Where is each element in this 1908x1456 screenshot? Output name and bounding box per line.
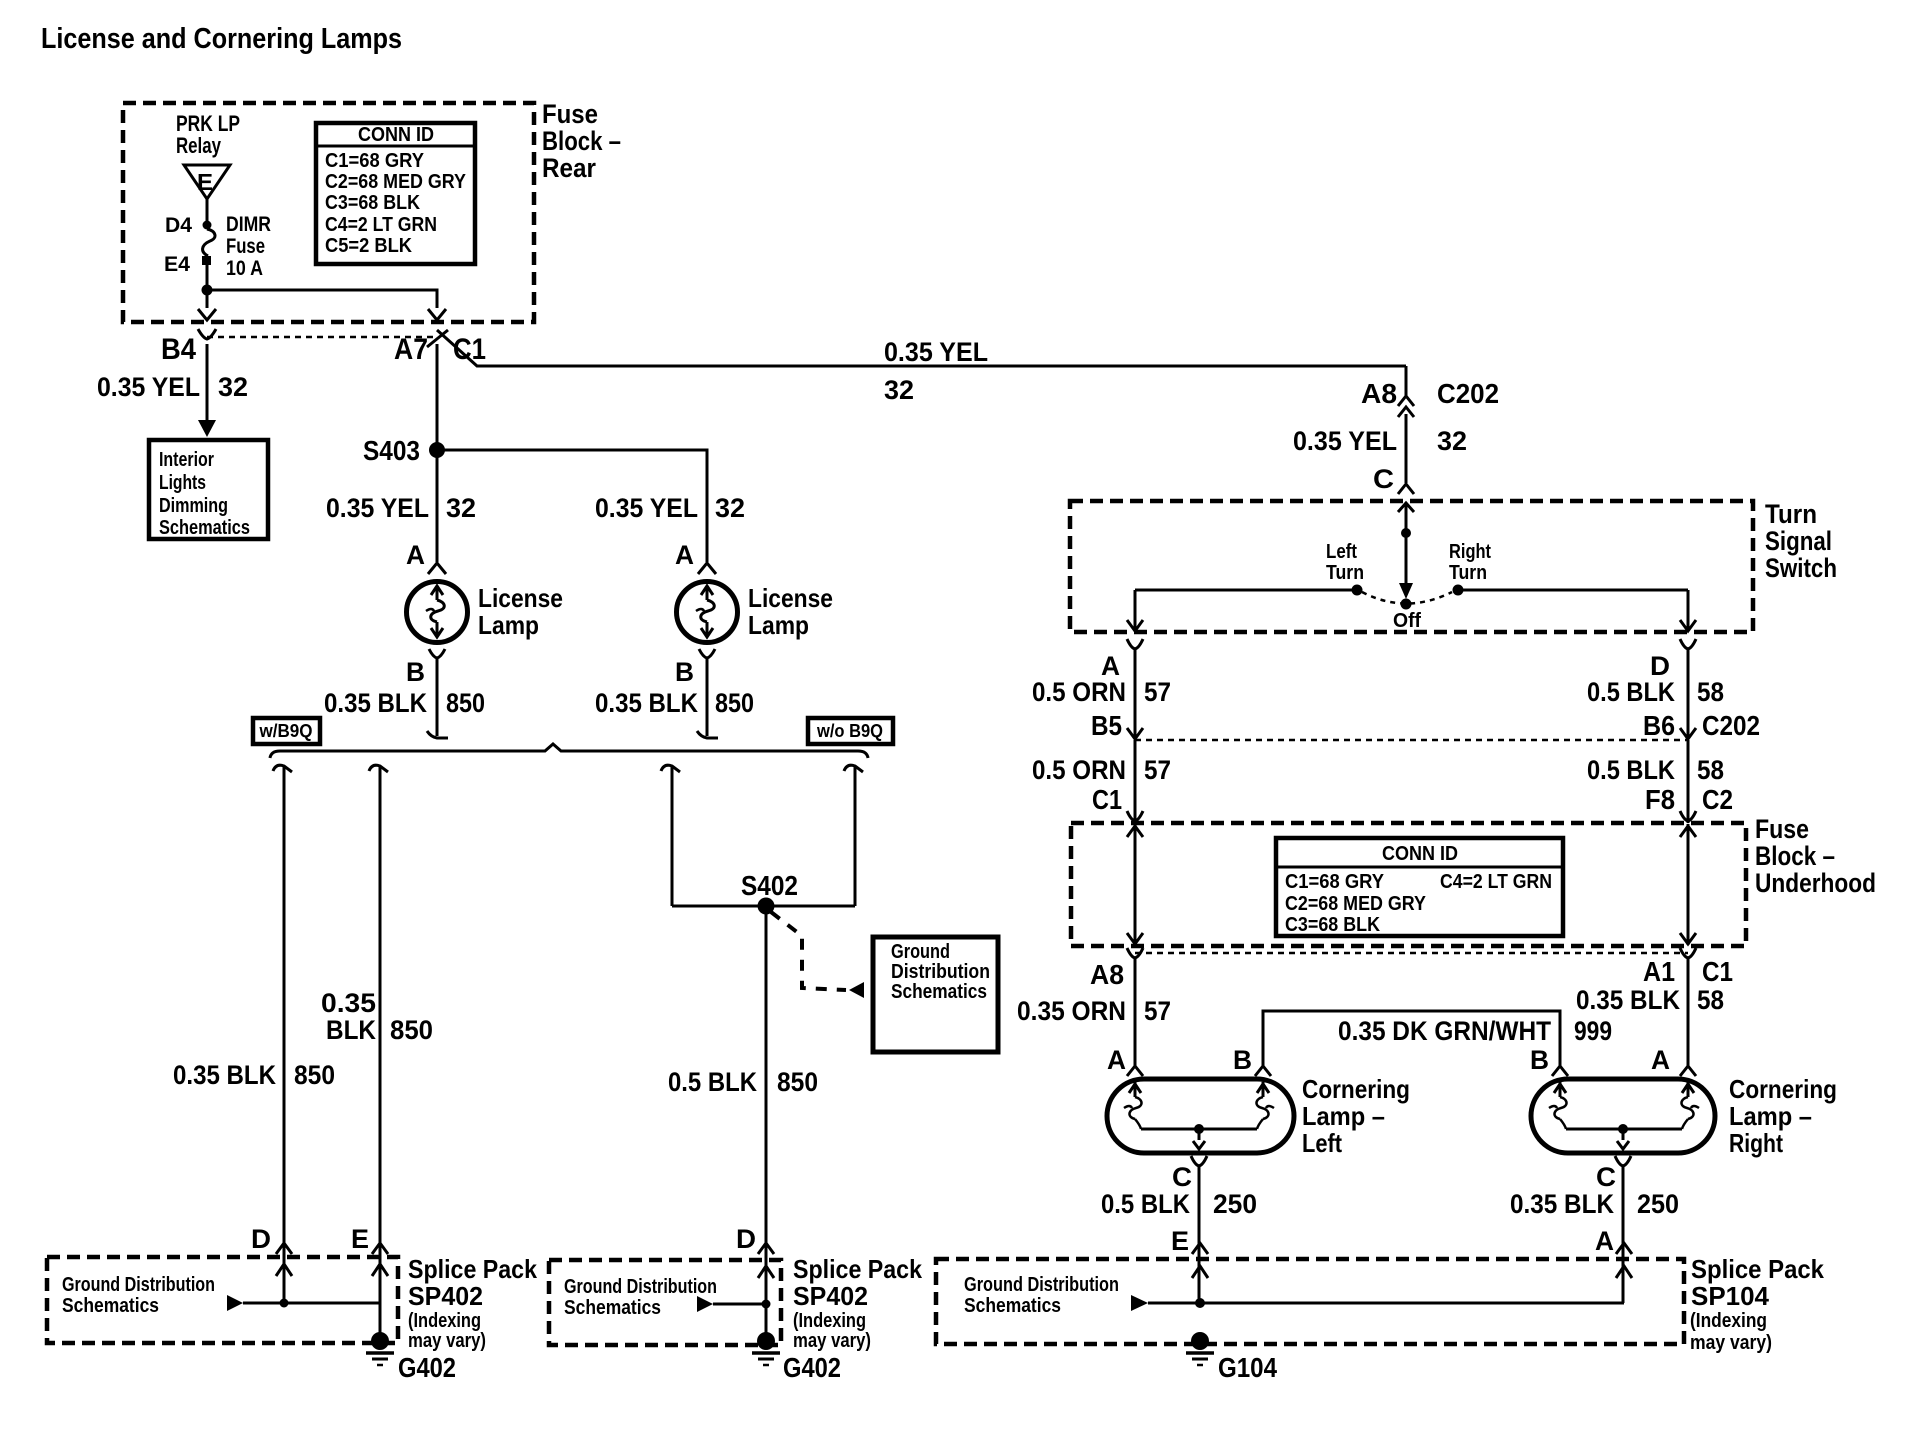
wire C right lamp to splice xyxy=(1622,1166,1625,1303)
svg-text:0.35 BLK: 0.35 BLK xyxy=(1510,1189,1614,1219)
connector mark A1 below box xyxy=(1680,948,1696,958)
svg-text:SP402: SP402 xyxy=(408,1281,483,1311)
svg-text:850: 850 xyxy=(390,1015,433,1045)
dashed reference wire S402 to ground dist xyxy=(771,912,864,998)
splice pack SP104 box xyxy=(936,1259,1684,1344)
svg-text:B6: B6 xyxy=(1643,710,1675,741)
arrow up wire D inside box (middle) xyxy=(758,1266,774,1278)
svg-text:Splice Pack: Splice Pack xyxy=(408,1254,537,1284)
svg-text:999: 999 xyxy=(1574,1016,1612,1046)
svg-text:C1: C1 xyxy=(1702,956,1733,987)
wire D down in switch box + arrow xyxy=(1680,590,1696,631)
relay contact E triangle xyxy=(184,165,230,199)
switch arm arrow to Off xyxy=(1399,533,1413,599)
svg-text:Right: Right xyxy=(1449,541,1491,563)
connector B4 mark xyxy=(198,329,216,339)
svg-text:C202: C202 xyxy=(1702,710,1760,741)
svg-text:E: E xyxy=(1171,1226,1189,1256)
drop hook left (w/o B9Q) xyxy=(661,765,680,772)
junction dot (middle) xyxy=(762,1300,771,1309)
splice S403 xyxy=(363,435,445,466)
cornering lamp left filaments xyxy=(1124,1082,1274,1149)
label Right Turn xyxy=(1449,541,1491,584)
svg-text:Switch: Switch xyxy=(1765,553,1837,583)
svg-text:0.5 BLK: 0.5 BLK xyxy=(1587,677,1675,707)
svg-text:Schematics: Schematics xyxy=(564,1297,661,1319)
pin A cornering left xyxy=(1107,1045,1143,1076)
svg-text:32: 32 xyxy=(218,372,248,402)
svg-text:32: 32 xyxy=(446,493,476,523)
svg-text:BLK: BLK xyxy=(326,1015,376,1045)
wire label 0.35 BLK 850 (D drop) xyxy=(173,1060,335,1090)
CONN ID table rear xyxy=(316,123,475,264)
svg-text:A8: A8 xyxy=(1361,378,1397,409)
svg-text:G104: G104 xyxy=(1218,1352,1277,1383)
relay label PRK LP Relay xyxy=(176,111,240,158)
svg-text:C2: C2 xyxy=(1702,784,1733,815)
svg-text:S403: S403 xyxy=(363,435,420,466)
connector C202 dashed line xyxy=(1135,739,1688,742)
svg-text:Ground: Ground xyxy=(891,941,950,963)
svg-text:Splice Pack: Splice Pack xyxy=(1691,1254,1824,1284)
connector mark E entry xyxy=(372,1243,388,1254)
svg-text:F8: F8 xyxy=(1645,784,1675,815)
cornering lamp right label xyxy=(1729,1074,1837,1158)
arrow up wire E inside box xyxy=(372,1264,388,1276)
svg-text:850: 850 xyxy=(294,1060,335,1090)
wire C left lamp to splice xyxy=(1198,1166,1201,1303)
wire label 0.5 ORN 57 (upper) xyxy=(1032,677,1171,707)
svg-text:A8: A8 xyxy=(1090,959,1124,990)
svg-text:0.5 ORN: 0.5 ORN xyxy=(1032,755,1126,785)
wire label 0.35 BLK 250 xyxy=(1510,1189,1679,1219)
svg-text:0.35 BLK: 0.35 BLK xyxy=(173,1060,276,1090)
svg-text:C: C xyxy=(1373,464,1394,494)
svg-text:Ground Distribution: Ground Distribution xyxy=(964,1274,1119,1296)
right turn contact dot xyxy=(1453,585,1464,596)
svg-text:(Indexing: (Indexing xyxy=(793,1310,866,1332)
connector mark C1 entry xyxy=(1127,811,1143,821)
svg-text:Turn: Turn xyxy=(1765,499,1817,529)
pin E4 xyxy=(164,253,211,276)
pin B left lamp xyxy=(406,649,445,687)
ground G104 xyxy=(1186,1332,1277,1383)
wire label 0.5 ORN 57 (lower) xyxy=(1032,755,1171,785)
svg-text:0.35 BLK: 0.35 BLK xyxy=(1576,985,1680,1015)
CONN ID table underhood xyxy=(1276,838,1563,936)
connector C202 marks xyxy=(1398,396,1414,417)
splice bus wire (middle) xyxy=(713,1303,766,1306)
interior lights dimming box xyxy=(149,440,268,539)
svg-text:Lights: Lights xyxy=(159,472,206,494)
pin A right lamp xyxy=(675,540,716,574)
wire drop D to splice xyxy=(283,766,286,1302)
svg-text:Turn: Turn xyxy=(1326,562,1364,584)
pin A left lamp xyxy=(406,540,446,574)
svg-text:License and Cornering Lamps: License and Cornering Lamps xyxy=(41,23,402,55)
svg-text:C: C xyxy=(1172,1162,1192,1192)
connector mark D below switch xyxy=(1680,639,1696,649)
wire S403 to right lamp xyxy=(437,450,707,562)
svg-text:58: 58 xyxy=(1697,755,1724,785)
svg-text:Lamp –: Lamp – xyxy=(1302,1101,1385,1131)
pin B cornering right xyxy=(1530,1045,1568,1076)
wire label 0.35 YEL 32 (top run) xyxy=(884,337,988,405)
arrow up wire D inside box xyxy=(276,1264,292,1276)
connector arrow B5 xyxy=(1127,728,1143,739)
svg-text:E4: E4 xyxy=(164,253,190,276)
pin B cornering left xyxy=(1233,1045,1271,1076)
wire label 0.5 BLK 250 xyxy=(1101,1189,1257,1219)
svg-text:B: B xyxy=(675,657,694,687)
svg-text:0.35 YEL: 0.35 YEL xyxy=(1293,426,1397,456)
svg-text:57: 57 xyxy=(1144,677,1171,707)
wire C1 diagonal to top yel run xyxy=(437,330,1406,366)
drop hook E (w/B9Q) xyxy=(369,765,388,772)
connector arrow B6 xyxy=(1680,728,1696,739)
left turn contact dot xyxy=(1352,585,1363,596)
svg-text:Schematics: Schematics xyxy=(159,517,250,539)
svg-text:850: 850 xyxy=(715,688,754,718)
wire label 0.5 BLK 58 (lower) xyxy=(1587,755,1724,785)
svg-text:B5: B5 xyxy=(1091,710,1122,741)
svg-text:58: 58 xyxy=(1697,985,1724,1015)
svg-text:D: D xyxy=(251,1224,271,1254)
svg-text:DIMR: DIMR xyxy=(226,213,271,236)
cornering lamp right filaments xyxy=(1549,1082,1699,1149)
svg-text:Fuse: Fuse xyxy=(226,235,265,258)
svg-text:250: 250 xyxy=(1213,1189,1257,1219)
ground distribution schematics label (left) xyxy=(62,1274,215,1317)
svg-text:S402: S402 xyxy=(741,870,798,901)
svg-text:0.35 DK GRN/WHT: 0.35 DK GRN/WHT xyxy=(1338,1016,1551,1046)
svg-text:0.35 YEL: 0.35 YEL xyxy=(326,493,429,523)
svg-text:B: B xyxy=(1530,1045,1549,1075)
wire C1 to fuse block xyxy=(1134,740,1137,823)
pin A cornering right xyxy=(1651,1045,1696,1076)
svg-text:C5=2 BLK: C5=2 BLK xyxy=(325,235,413,257)
svg-text:0.5 BLK: 0.5 BLK xyxy=(1587,755,1675,785)
svg-text:Ground Distribution: Ground Distribution xyxy=(564,1276,717,1298)
svg-text:may vary): may vary) xyxy=(793,1330,871,1352)
svg-text:G402: G402 xyxy=(398,1352,456,1383)
svg-text:may vary): may vary) xyxy=(1690,1332,1772,1354)
wire S402 horizontal xyxy=(672,905,855,908)
splice pack SP402 label (left) xyxy=(408,1254,537,1352)
arrow up wire A inside box (right) xyxy=(1616,1266,1632,1278)
arrow up wire E inside box (right) xyxy=(1192,1266,1208,1278)
ground distribution schematics label (right) xyxy=(964,1274,1119,1317)
svg-text:57: 57 xyxy=(1144,996,1171,1026)
connector mark A8 below box xyxy=(1127,948,1143,958)
wire junction to right xyxy=(207,290,437,308)
wire through underhood left xyxy=(1127,824,1143,945)
connector mark F8 entry xyxy=(1680,811,1696,821)
svg-text:Block –: Block – xyxy=(1755,841,1835,871)
svg-text:57: 57 xyxy=(1144,755,1171,785)
svg-text:C2=68 MED GRY: C2=68 MED GRY xyxy=(1285,893,1427,915)
svg-text:A: A xyxy=(675,540,694,570)
label A1 C1 xyxy=(1643,956,1733,987)
svg-text:32: 32 xyxy=(715,493,745,523)
wire drop E to ground xyxy=(379,766,382,1333)
wire A8 to cornering lamp A xyxy=(1134,958,1137,1066)
svg-text:CONN ID: CONN ID xyxy=(1382,843,1458,865)
wire label 0.35 BLK 58 xyxy=(1576,985,1724,1015)
wire drop to S402 left xyxy=(671,766,674,906)
wire A down in switch box + arrow xyxy=(1127,590,1143,631)
svg-text:C4=2 LT GRN: C4=2 LT GRN xyxy=(1440,871,1552,893)
svg-text:Left: Left xyxy=(1302,1128,1342,1158)
license lamp right xyxy=(677,582,738,643)
junction dot D xyxy=(280,1299,289,1308)
svg-text:Rear: Rear xyxy=(542,153,596,183)
junction dot (right) xyxy=(1195,1298,1205,1308)
svg-text:may vary): may vary) xyxy=(408,1330,486,1352)
wire B4 down xyxy=(206,344,209,420)
svg-text:SP104: SP104 xyxy=(1691,1281,1770,1311)
wire label 0.5 BLK 58 (upper) xyxy=(1587,677,1724,707)
svg-text:C3=68 BLK: C3=68 BLK xyxy=(325,192,420,214)
wire left lamp B down xyxy=(427,658,448,738)
wire label 0.35 ORN 57 xyxy=(1017,996,1171,1026)
splice arrow (left) xyxy=(227,1295,243,1311)
connector mark A entry (right) xyxy=(1616,1243,1632,1254)
label F8 C2 xyxy=(1645,784,1733,815)
pin B right lamp xyxy=(675,649,715,687)
wire drop to S402 right xyxy=(854,766,857,906)
splice pack SP402 box (left) xyxy=(47,1257,398,1343)
svg-text:850: 850 xyxy=(446,688,485,718)
svg-text:Schematics: Schematics xyxy=(964,1295,1061,1317)
svg-text:Schematics: Schematics xyxy=(62,1295,159,1317)
svg-text:0.35 YEL: 0.35 YEL xyxy=(884,337,988,367)
svg-text:Off: Off xyxy=(1393,610,1421,632)
ground distribution schematics label (middle) xyxy=(564,1276,717,1319)
wire A to C202 line xyxy=(1134,649,1137,739)
cornering lamp right body xyxy=(1531,1079,1715,1153)
arrow down at B4 box exit xyxy=(198,309,216,320)
harness bracket xyxy=(270,744,868,758)
splice bus wire (right) xyxy=(1148,1302,1624,1305)
ground G402 (middle) xyxy=(752,1332,841,1383)
splice pack SP402 label (middle) xyxy=(793,1254,922,1352)
option label w/B9Q xyxy=(253,718,320,744)
fuse block underhood box xyxy=(1071,823,1746,946)
connector C1 cross mark xyxy=(427,330,448,347)
svg-text:A: A xyxy=(1595,1226,1614,1256)
wire label 0.35 BLK 850 (left) xyxy=(324,688,485,718)
wire label 0.35 DK GRN/WHT 999 xyxy=(1338,1016,1612,1046)
svg-text:Cornering: Cornering xyxy=(1729,1074,1837,1104)
svg-text:0.35 BLK: 0.35 BLK xyxy=(595,688,698,718)
svg-text:D4: D4 xyxy=(165,214,192,237)
svg-text:0.35 YEL: 0.35 YEL xyxy=(97,372,200,402)
switch throw dashed arc xyxy=(1362,592,1452,604)
svg-text:C4=2 LT GRN: C4=2 LT GRN xyxy=(325,214,437,236)
label A8 C202 xyxy=(1361,378,1499,409)
pin C turn signal switch xyxy=(1373,464,1414,494)
svg-text:C1: C1 xyxy=(1092,784,1122,815)
splice arrow (middle) xyxy=(697,1296,713,1312)
wire label 0.35 BLK 850 (right) xyxy=(595,688,754,718)
connector mark E entry (right) xyxy=(1192,1243,1208,1254)
wire right turn to D xyxy=(1463,589,1688,592)
svg-text:License: License xyxy=(478,583,563,613)
ground distribution schematics box (S402) xyxy=(873,937,998,1052)
svg-text:Turn: Turn xyxy=(1449,562,1487,584)
svg-text:SP402: SP402 xyxy=(793,1281,868,1311)
svg-text:Lamp –: Lamp – xyxy=(1729,1101,1812,1131)
pin C cornering right xyxy=(1596,1156,1631,1192)
wire label 0.35 YEL 32 (left lamp) xyxy=(326,493,476,523)
license lamp left xyxy=(407,582,468,643)
svg-text:Underhood: Underhood xyxy=(1755,868,1876,898)
svg-text:CONN ID: CONN ID xyxy=(358,124,434,146)
fuse block underhood label xyxy=(1755,814,1876,898)
svg-text:Interior: Interior xyxy=(159,449,214,471)
svg-text:G402: G402 xyxy=(783,1352,841,1383)
wire through underhood right xyxy=(1680,824,1696,945)
wire F8 to fuse block xyxy=(1687,740,1690,823)
svg-text:10 A: 10 A xyxy=(226,257,263,280)
wire DK GRN/WHT between B pins xyxy=(1263,1011,1560,1066)
svg-text:0.35 ORN: 0.35 ORN xyxy=(1017,996,1126,1026)
svg-text:A: A xyxy=(1107,1045,1126,1075)
arrow into interior lights box xyxy=(198,420,216,437)
wire E4 down xyxy=(206,265,209,290)
label Left Turn xyxy=(1326,541,1364,584)
wire S402 down xyxy=(765,906,768,1335)
svg-text:850: 850 xyxy=(777,1067,818,1097)
license lamp left label xyxy=(478,583,563,640)
svg-text:Schematics: Schematics xyxy=(891,981,987,1003)
svg-text:A1: A1 xyxy=(1643,956,1675,987)
svg-text:Right: Right xyxy=(1729,1128,1783,1158)
wire top run down to C202 xyxy=(1405,366,1408,397)
wire label 0.35 YEL 32 (B4) xyxy=(97,372,248,402)
turn signal switch box xyxy=(1070,501,1753,632)
wire B4 drop in box xyxy=(206,290,209,308)
svg-text:0.35 YEL: 0.35 YEL xyxy=(595,493,698,523)
svg-text:E: E xyxy=(351,1224,369,1254)
svg-text:B: B xyxy=(1233,1045,1252,1075)
off contact dot xyxy=(1401,599,1412,610)
connector C1 dashed line (below underhood) xyxy=(1135,952,1688,955)
junction dot in fuse block xyxy=(202,285,213,296)
splice pack SP104 label xyxy=(1690,1254,1824,1354)
fuse block rear label xyxy=(542,99,621,183)
svg-text:B4: B4 xyxy=(161,333,196,366)
wire relay to D4 xyxy=(206,199,209,221)
svg-text:58: 58 xyxy=(1697,677,1724,707)
svg-text:w/B9Q: w/B9Q xyxy=(259,721,313,741)
splice arrow (right) xyxy=(1131,1295,1148,1311)
wire left turn to A xyxy=(1135,589,1352,592)
svg-text:C1=68 GRY: C1=68 GRY xyxy=(1285,871,1385,893)
wire label 0.5 BLK 850 (S402) xyxy=(668,1067,818,1097)
drop hook right (w/o B9Q) xyxy=(844,765,863,772)
drop hook D (w/B9Q) xyxy=(273,765,292,772)
wire D to C202 line xyxy=(1687,649,1690,739)
svg-text:0.5 BLK: 0.5 BLK xyxy=(1101,1189,1190,1219)
turn signal switch label xyxy=(1765,499,1837,583)
svg-text:License: License xyxy=(748,583,833,613)
wire C202 to switch xyxy=(1405,414,1408,483)
svg-text:(Indexing: (Indexing xyxy=(408,1310,481,1332)
fuse DIMR 10A squiggle xyxy=(203,213,271,280)
svg-text:Fuse: Fuse xyxy=(1755,814,1809,844)
wire right lamp B down xyxy=(697,658,718,738)
cornering lamp left body xyxy=(1107,1079,1294,1153)
connector mark A below switch xyxy=(1127,639,1143,649)
svg-text:w/o B9Q: w/o B9Q xyxy=(816,721,883,741)
svg-text:Ground Distribution: Ground Distribution xyxy=(62,1274,215,1296)
fuse block rear box xyxy=(123,103,534,322)
svg-text:(Indexing: (Indexing xyxy=(1690,1310,1767,1332)
switch pivot dot xyxy=(1401,528,1411,538)
svg-text:Dimming: Dimming xyxy=(159,495,228,517)
wire label 0.35 BLK 850 stacked (E drop) xyxy=(321,988,433,1045)
wire A1 to cornering lamp A xyxy=(1687,958,1690,1066)
svg-text:250: 250 xyxy=(1637,1189,1679,1219)
svg-text:C2=68 MED GRY: C2=68 MED GRY xyxy=(325,171,467,193)
pin C cornering left xyxy=(1172,1156,1207,1192)
svg-text:0.5 BLK: 0.5 BLK xyxy=(668,1067,757,1097)
svg-text:C202: C202 xyxy=(1437,378,1499,409)
ground G402 (left) xyxy=(366,1332,456,1383)
svg-text:Fuse: Fuse xyxy=(542,99,598,129)
splice pack SP402 box (middle) xyxy=(549,1260,781,1345)
svg-text:0.35 BLK: 0.35 BLK xyxy=(324,688,427,718)
svg-text:D: D xyxy=(736,1224,756,1254)
svg-text:Signal: Signal xyxy=(1765,526,1832,556)
svg-text:C: C xyxy=(1596,1162,1616,1192)
svg-text:A: A xyxy=(406,540,425,570)
svg-text:Lamp: Lamp xyxy=(748,610,809,640)
connector dashed line B4-A7 xyxy=(207,336,437,339)
wire label 0.35 YEL 32 (C202) xyxy=(1293,426,1467,456)
svg-text:C1=68 GRY: C1=68 GRY xyxy=(325,150,425,172)
arrow down at A7 box exit xyxy=(428,309,446,320)
label B6 C202 xyxy=(1643,710,1760,741)
svg-text:Left: Left xyxy=(1326,541,1357,563)
svg-text:32: 32 xyxy=(1437,426,1467,456)
cornering lamp left label xyxy=(1302,1074,1410,1158)
svg-text:0.5 ORN: 0.5 ORN xyxy=(1032,677,1126,707)
connector mark D entry xyxy=(276,1243,292,1254)
svg-text:E: E xyxy=(197,169,213,195)
connector mark D entry (middle) xyxy=(758,1243,774,1254)
svg-text:C3=68 BLK: C3=68 BLK xyxy=(1285,914,1380,936)
wire label 0.35 YEL 32 (right lamp) xyxy=(595,493,745,523)
splice bus wire (left) xyxy=(243,1302,380,1305)
option label w/o B9Q xyxy=(808,718,893,744)
svg-text:Relay: Relay xyxy=(176,133,222,158)
svg-text:A7: A7 xyxy=(394,333,428,366)
svg-text:Lamp: Lamp xyxy=(478,610,539,640)
svg-text:0.35: 0.35 xyxy=(321,988,376,1018)
svg-text:Block –: Block – xyxy=(542,126,621,156)
svg-text:Splice Pack: Splice Pack xyxy=(793,1254,922,1284)
svg-text:B: B xyxy=(406,657,425,687)
svg-text:A: A xyxy=(1651,1045,1670,1075)
splice S402 xyxy=(741,870,798,915)
license lamp right label xyxy=(748,583,833,640)
pin D4 xyxy=(165,214,212,237)
svg-text:Distribution: Distribution xyxy=(891,961,990,983)
svg-text:32: 32 xyxy=(884,375,914,405)
